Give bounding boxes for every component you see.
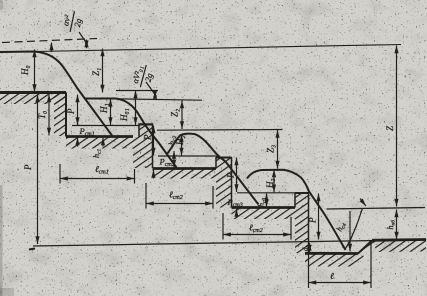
dim Pct2 arrow bbox=[153, 170, 155, 179]
hatch under floor 1 bbox=[66, 137, 133, 149]
baffle wall 3 bbox=[295, 193, 309, 254]
hatch under floor 3 bbox=[232, 208, 296, 219]
floor 3 bbox=[232, 206, 296, 209]
downstream bed bbox=[372, 238, 426, 242]
scan smudge bottom-left corner bbox=[0, 288, 14, 296]
floor 1 bbox=[66, 135, 133, 138]
tick at line start bbox=[29, 249, 35, 250]
svg-text:d₀: d₀ bbox=[302, 245, 310, 252]
velocity head arrows bbox=[86, 40, 88, 49]
energy line (dashed) bbox=[2, 39, 97, 43]
hatch under bed bbox=[0, 93, 66, 104]
tailwater surface bbox=[327, 208, 426, 210]
dim Z3 bbox=[277, 130, 279, 169]
dim H0 bbox=[34, 50, 36, 93]
crest line pool 2 bbox=[158, 155, 219, 157]
dim hc3 bbox=[266, 194, 268, 208]
dim P1 bbox=[77, 95, 79, 126]
basin floor bbox=[305, 252, 358, 255]
svg-text:H₀₁: H₀₁ bbox=[119, 108, 129, 122]
velocity head tick bbox=[51, 43, 53, 53]
svg-text:Z₁: Z₁ bbox=[91, 68, 101, 76]
dim P4 bbox=[318, 194, 320, 240]
label aV01/2g bbox=[129, 62, 156, 90]
basin jump surface bbox=[345, 209, 363, 250]
pool 3 surface bbox=[247, 170, 346, 250]
scan smudge top-left corner bbox=[0, 0, 3, 10]
floor 2 bbox=[153, 167, 217, 170]
fraction2 leader bbox=[146, 82, 157, 97]
hatch under basin floor bbox=[305, 254, 364, 267]
hatch under floor 2 bbox=[153, 169, 217, 179]
baffle wall 1 bbox=[133, 124, 153, 168]
dim Pct1 arrow bbox=[77, 138, 79, 147]
dim H01 bbox=[135, 91, 137, 126]
dim d0 bbox=[309, 243, 311, 253]
dim P2 bbox=[153, 126, 155, 156]
dim Z2 bbox=[181, 101, 183, 130]
dim Pct3 arrow bbox=[236, 209, 238, 218]
crest line pool 3 bbox=[237, 192, 297, 194]
dim l basin bbox=[309, 282, 372, 284]
label av2/2g bbox=[59, 9, 84, 34]
svg-text:P: P bbox=[308, 217, 318, 224]
pool2 energy extension bbox=[157, 129, 283, 132]
pool1 level extension bbox=[116, 99, 202, 100]
dim P total bbox=[37, 95, 39, 245]
dim P3 bbox=[236, 158, 238, 193]
svg-text:H₁: H₁ bbox=[99, 103, 109, 114]
pool1 energy line bbox=[116, 90, 158, 92]
dim H1 bbox=[110, 99, 112, 125]
svg-text:H₂: H₂ bbox=[175, 135, 185, 146]
svg-text:H₀: H₀ bbox=[20, 65, 30, 76]
dim H3 bbox=[273, 170, 275, 193]
dim Z1 bbox=[102, 49, 104, 93]
svg-text:H₃: H₃ bbox=[265, 178, 275, 189]
pool 2 surface bbox=[167, 134, 259, 205]
hatch right bank bbox=[372, 240, 426, 252]
upstream bed bbox=[0, 91, 66, 94]
pool 1 surface bbox=[85, 99, 177, 168]
dim Z bbox=[396, 46, 398, 207]
dim hnb bbox=[396, 210, 398, 240]
dim lct2 bbox=[146, 203, 213, 205]
dim lct3 bbox=[223, 234, 291, 236]
svg-text:Z₃: Z₃ bbox=[266, 145, 276, 153]
hatch wall1 column bbox=[54, 93, 66, 136]
svg-text:P: P bbox=[143, 134, 153, 141]
dim H2 bbox=[181, 135, 183, 156]
upper reference line to Z bbox=[36, 45, 401, 52]
scan smudge left edge bbox=[0, 185, 3, 296]
upstream water level bbox=[0, 51, 36, 54]
svg-text:T₀: T₀ bbox=[37, 111, 47, 119]
nappe 1 bbox=[0, 52, 112, 136]
dim hc1 arrow bbox=[102, 138, 104, 147]
dim hc4 line bbox=[349, 211, 351, 252]
fraction2 arrows bbox=[154, 91, 156, 98]
dim lct1 bbox=[60, 178, 135, 180]
bottom reference line bbox=[33, 241, 377, 247]
svg-text:P: P bbox=[66, 108, 76, 115]
baffle wall 2 bbox=[216, 157, 232, 208]
velocity head leader bbox=[79, 32, 87, 43]
tailwater mark bbox=[360, 199, 366, 207]
svg-text:P: P bbox=[226, 172, 236, 179]
svg-text:ℓ: ℓ bbox=[330, 271, 334, 281]
basin slope bbox=[358, 241, 372, 254]
dim T0 bbox=[48, 95, 50, 136]
wall 1 face bbox=[65, 93, 67, 137]
dim hc2 bbox=[173, 151, 175, 168]
svg-text:Z₂: Z₂ bbox=[170, 109, 180, 117]
crest line pool 1 bbox=[72, 125, 139, 127]
svg-text:P: P bbox=[23, 164, 33, 171]
